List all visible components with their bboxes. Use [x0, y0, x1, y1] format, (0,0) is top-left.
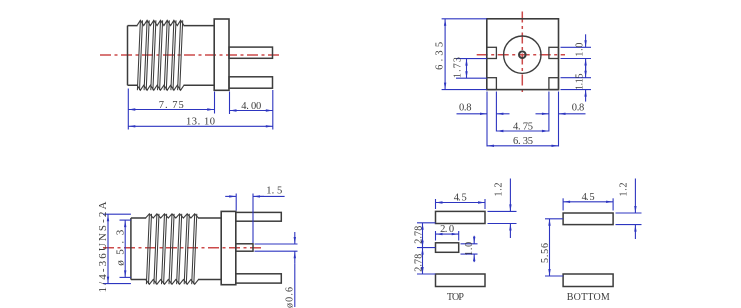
dimension diameter 5.3 [115, 220, 131, 277]
svg-text:1.73: 1.73 [452, 57, 463, 78]
side view: lower leg bar [229, 77, 273, 88]
dimension 1/4-36UNS-2A thread spec [97, 201, 131, 292]
TOP footprint: center signal pad [436, 243, 459, 253]
side view: upper leg / pin bar [229, 47, 273, 58]
svg-text:1. 5: 1. 5 [266, 185, 282, 196]
svg-text:ø0.6: ø0.6 [284, 287, 295, 308]
TOP dimension 1.0 signal pad [461, 236, 478, 262]
label TOP [447, 292, 464, 303]
side view 2: lower leg [236, 274, 281, 283]
TOP dimension 2.0 [436, 224, 459, 240]
front view: red crosshair centerlines [477, 12, 565, 94]
svg-text:0.8: 0.8 [459, 102, 472, 113]
svg-text:2.78: 2.78 [414, 226, 425, 244]
side view 2: connector body outline [131, 218, 221, 280]
front view: barrel circle [504, 36, 541, 73]
dimension 7.75 [128, 89, 214, 130]
svg-text:4. 00: 4. 00 [241, 101, 261, 112]
svg-text:2. 0: 2. 0 [440, 224, 454, 235]
side view: flange [214, 19, 229, 90]
label BOTTOM [567, 292, 610, 303]
BOTTOM footprint: lower ground pad [563, 274, 613, 287]
BOTTOM footprint: upper ground pad [563, 213, 613, 225]
dimension 13.10 [128, 117, 272, 128]
svg-text:0.8: 0.8 [572, 102, 585, 113]
dimension 1.73 [452, 57, 486, 78]
side view 2: center pin [236, 244, 253, 251]
svg-text:TOP: TOP [447, 292, 464, 303]
svg-text:6.35: 6.35 [434, 42, 445, 70]
BOTTOM dimension 5.56 [540, 219, 563, 276]
dimension 6.35 bottom [487, 136, 559, 147]
side view 2: flange [221, 211, 236, 284]
dimension 0.8 bottom-right [536, 92, 586, 147]
TOP dimension 2.78 upper [414, 223, 436, 248]
front view: upper-left leg tab [487, 47, 497, 58]
svg-text:4. 75: 4. 75 [513, 121, 533, 132]
dimension 1.15 right lower [561, 66, 592, 102]
side view 2: threaded section [146, 214, 199, 284]
front view: square flange body [487, 19, 559, 90]
side view: centerline axis [100, 54, 281, 56]
TOP dimension 2.78 lower [414, 248, 436, 274]
dimension 0.8 bottom-left [457, 92, 510, 147]
front view: lower-right leg tab [549, 78, 559, 90]
TOP dimension 1.2 [488, 179, 517, 239]
BOTTOM dimension 4.5 [563, 192, 613, 211]
front view: center pin circle [519, 51, 526, 58]
dimension diameter 0.6 [255, 232, 298, 308]
svg-text:1.0: 1.0 [574, 43, 585, 57]
TOP dimension 4.5 [436, 192, 486, 209]
dimension 1.5 [225, 185, 284, 243]
svg-text:5.56: 5.56 [540, 243, 551, 263]
svg-text:6. 35: 6. 35 [513, 136, 533, 147]
front view: upper-right leg tab [549, 47, 559, 58]
svg-text:4. 5: 4. 5 [454, 192, 467, 203]
svg-text:2.78: 2.78 [414, 254, 425, 272]
svg-text:7. 75: 7. 75 [159, 100, 184, 111]
svg-text:1.2: 1.2 [494, 183, 505, 197]
side view 2: upper leg [236, 212, 281, 221]
front view: lower-left leg tab [487, 78, 497, 90]
dimension 4.00 [230, 90, 273, 130]
svg-text:1/4-36UNS-2A: 1/4-36UNS-2A [97, 201, 109, 292]
svg-text:1.15: 1.15 [574, 74, 585, 91]
side view: threaded section [137, 20, 184, 90]
svg-text:1.0: 1.0 [464, 242, 475, 256]
dimension 4.75 [496, 121, 549, 132]
side view 2: centerline axis [103, 247, 262, 249]
svg-text:BOTTOM: BOTTOM [567, 292, 610, 303]
dimension 6.35 left [434, 19, 486, 90]
dimension 1.0 right upper [561, 34, 592, 71]
BOTTOM dimension 1.2 [616, 179, 642, 240]
side view: connector body outline [128, 26, 215, 86]
TOP footprint: lower ground pad [436, 274, 486, 287]
TOP footprint: upper ground pad [436, 211, 486, 223]
svg-text:1.2: 1.2 [618, 183, 629, 197]
svg-text:4. 5: 4. 5 [582, 192, 595, 203]
svg-text:13. 10: 13. 10 [186, 117, 215, 128]
